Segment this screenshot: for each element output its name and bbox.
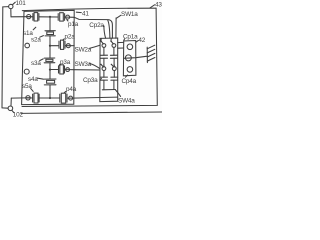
svg-text:41: 41 xyxy=(82,10,89,17)
svg-text:Cp2a: Cp2a xyxy=(89,22,104,29)
svg-text:SW4a: SW4a xyxy=(118,97,135,104)
svg-text:p2a: p2a xyxy=(65,34,76,41)
svg-text:SW3a: SW3a xyxy=(75,61,92,68)
svg-text:s5a: s5a xyxy=(22,83,32,90)
svg-text:p4a: p4a xyxy=(66,86,77,93)
svg-text:43: 43 xyxy=(155,1,162,8)
svg-text:101: 101 xyxy=(16,0,27,7)
svg-text:p1a: p1a xyxy=(68,21,79,28)
svg-text:42: 42 xyxy=(138,37,145,44)
svg-text:SW1a: SW1a xyxy=(121,11,138,18)
svg-text:Cp3a: Cp3a xyxy=(83,77,98,84)
svg-text:Cp1a: Cp1a xyxy=(123,34,138,41)
svg-text:s3a: s3a xyxy=(31,60,41,67)
svg-text:s2a: s2a xyxy=(31,36,41,43)
svg-text:Cp4a: Cp4a xyxy=(122,78,137,85)
svg-text:p3a: p3a xyxy=(60,59,71,66)
svg-text:SW2a: SW2a xyxy=(75,46,92,53)
svg-text:102: 102 xyxy=(13,112,24,119)
svg-text:s4a: s4a xyxy=(28,76,38,83)
